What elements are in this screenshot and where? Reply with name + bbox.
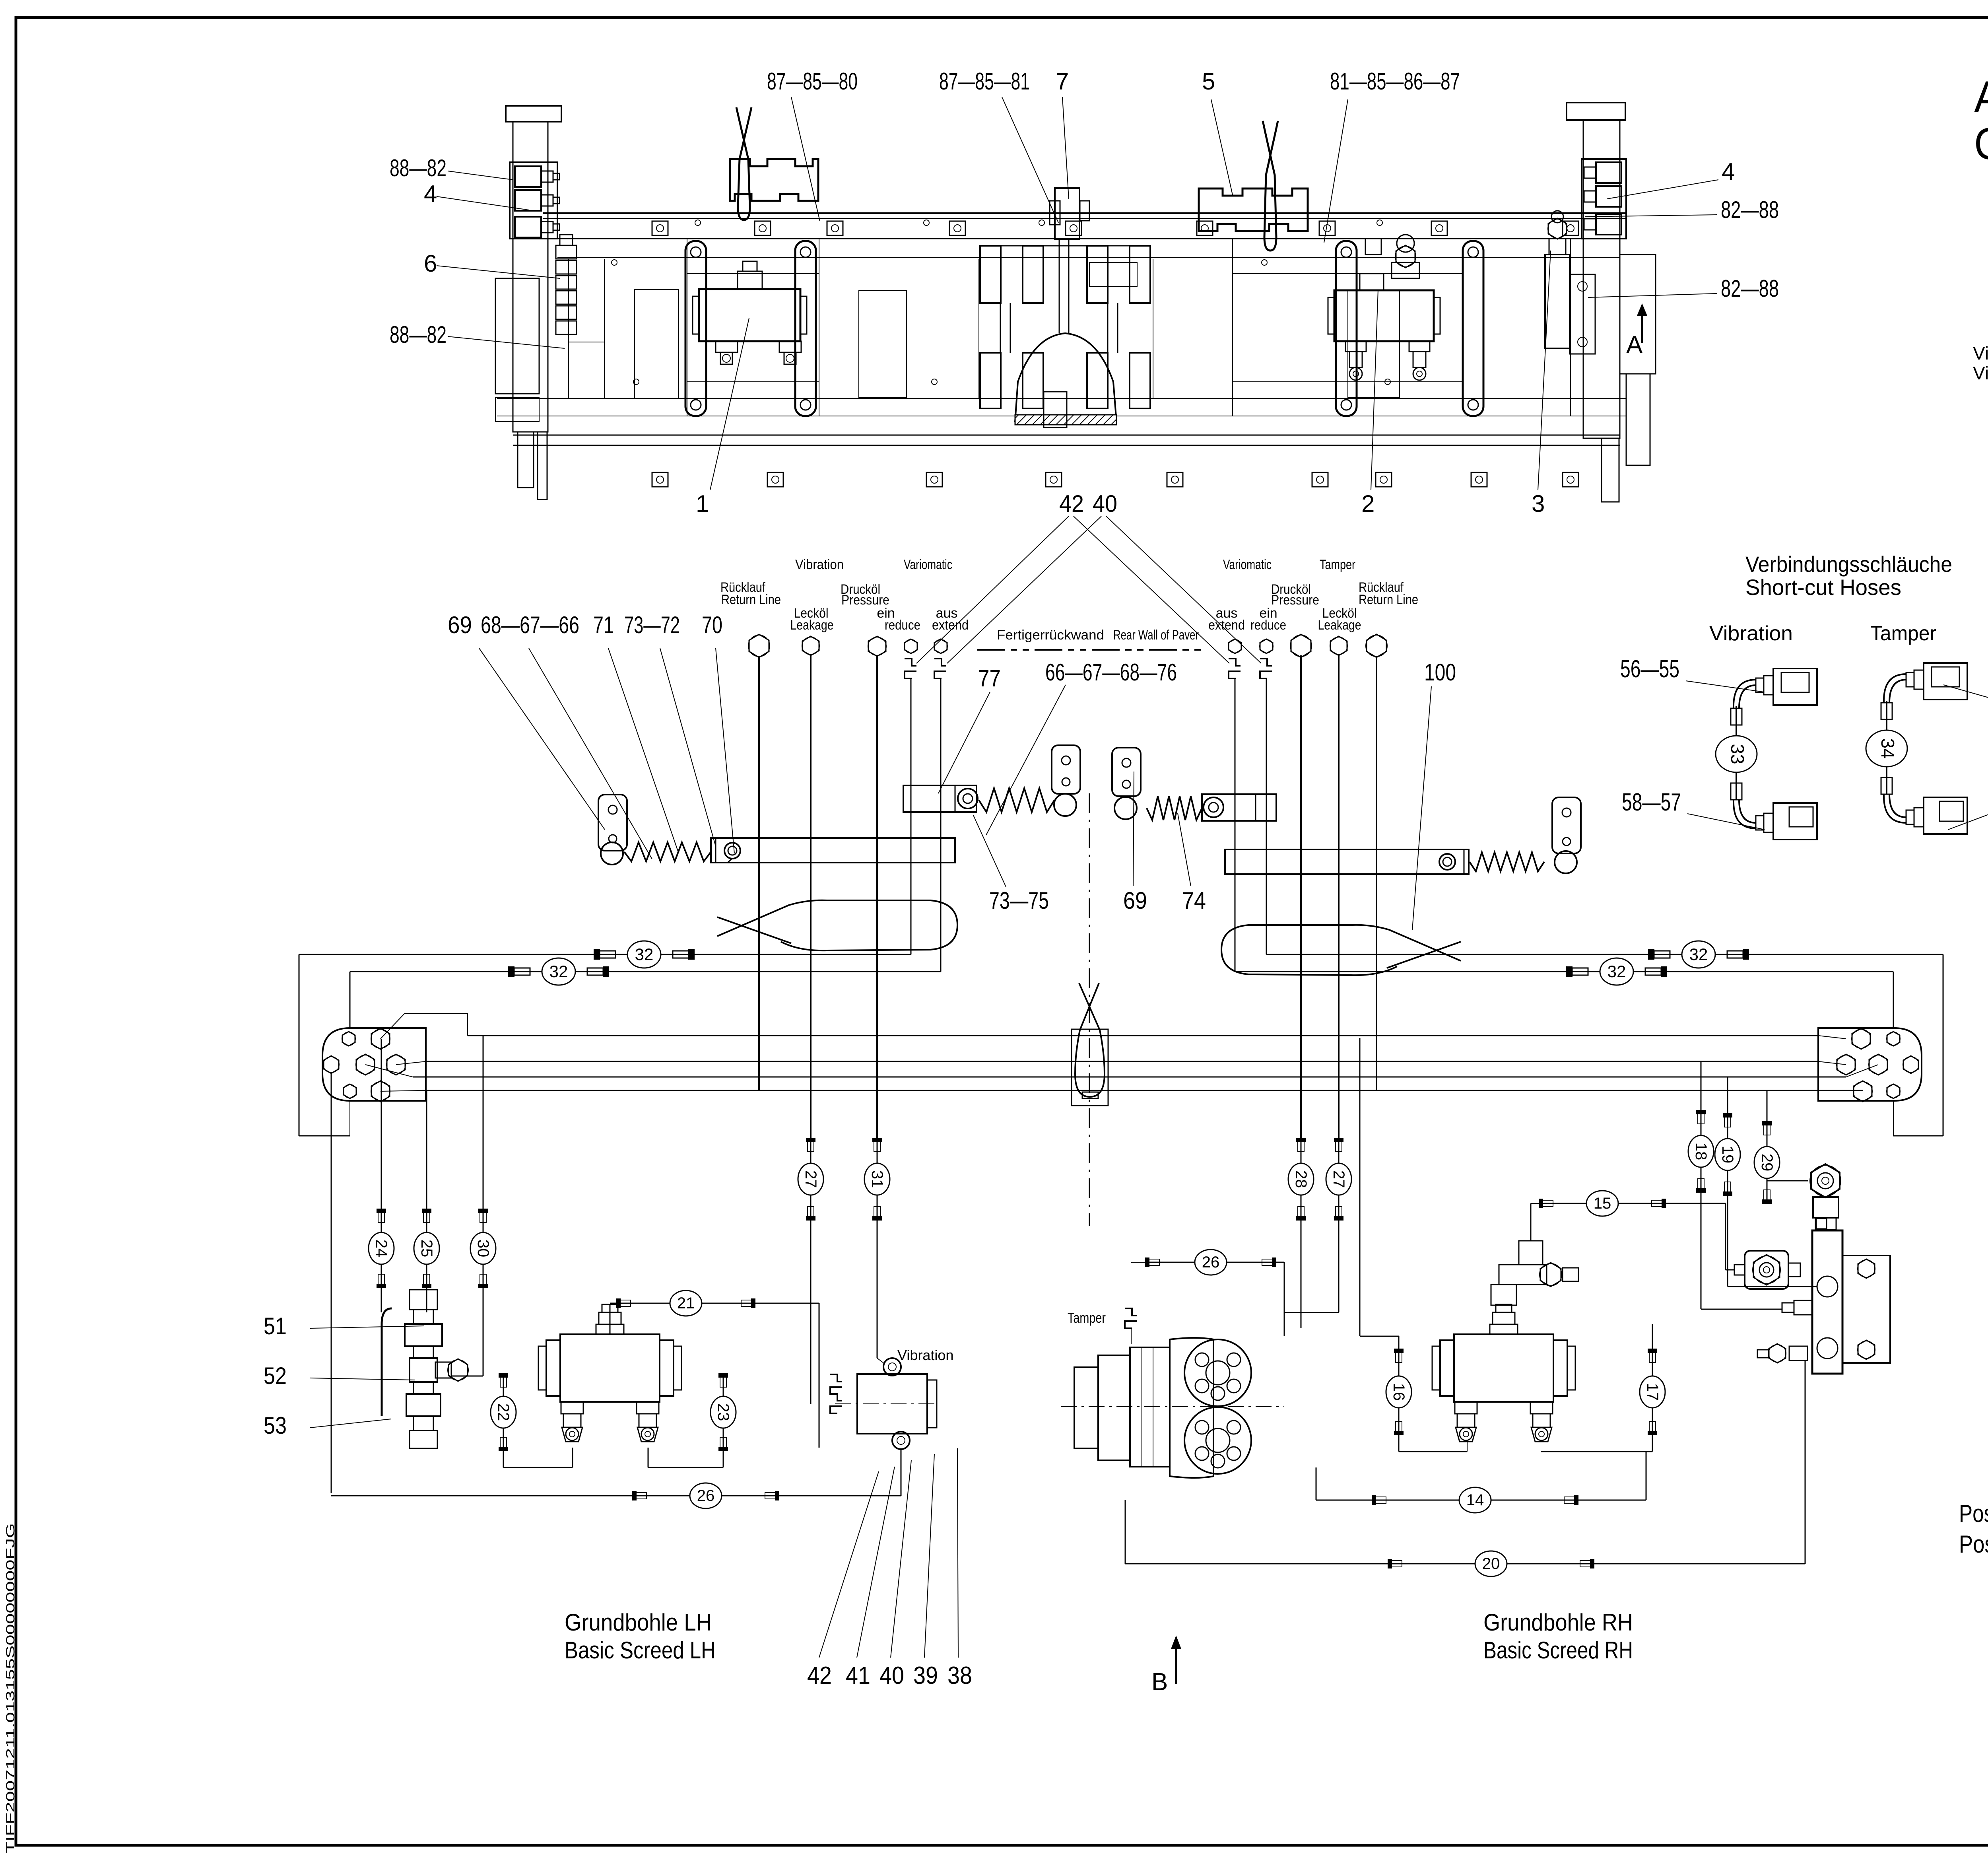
svg-text:42: 42 xyxy=(807,1662,832,1689)
hose 31 xyxy=(877,1141,878,1217)
svg-text:Vibration Pressure Oil: Vibration Pressure Oil xyxy=(1973,363,1988,383)
svg-text:32: 32 xyxy=(1607,962,1626,981)
svg-text:extend: extend xyxy=(1208,618,1245,633)
anchor plate xyxy=(598,795,627,851)
svg-text:81—85—86—87: 81—85—86—87 xyxy=(1330,68,1460,95)
hose 25 xyxy=(426,1212,427,1285)
RH tee fittings xyxy=(1491,1285,1516,1305)
hose 20 xyxy=(1125,1500,1126,1564)
hose 26 xyxy=(1149,1262,1272,1263)
right connector stack 4 / 82-88 xyxy=(1582,159,1626,239)
svg-text:B: B xyxy=(1151,1668,1168,1696)
svg-text:22: 22 xyxy=(495,1403,512,1421)
svg-text:Pressure: Pressure xyxy=(1271,593,1319,608)
svg-text:23: 23 xyxy=(714,1403,732,1421)
svg-text:20: 20 xyxy=(1482,1555,1500,1572)
LH drop from manifold xyxy=(331,1074,332,1493)
hose 24 xyxy=(381,1212,382,1285)
svg-text:27: 27 xyxy=(1330,1170,1347,1188)
svg-text:51: 51 xyxy=(264,1313,287,1339)
hose 16 xyxy=(1398,1352,1400,1432)
hose 14 xyxy=(1316,1467,1317,1500)
clip symbol xyxy=(1125,1308,1137,1316)
svg-text:1: 1 xyxy=(696,490,709,517)
part 6 fitting stack xyxy=(556,245,577,259)
RH clamp bar short xyxy=(1202,794,1276,821)
wire 19 xyxy=(1727,1077,1728,1117)
svg-text:73—72: 73—72 xyxy=(624,612,680,638)
wire 24 xyxy=(381,1039,382,1212)
svg-text:24: 24 xyxy=(373,1240,390,1257)
svg-text:19: 19 xyxy=(1719,1146,1736,1164)
svg-text:28: 28 xyxy=(1292,1170,1310,1188)
hose 21 xyxy=(610,1304,611,1335)
svg-text:21: 21 xyxy=(677,1294,695,1312)
anchor plate xyxy=(1112,748,1141,796)
hose 26 RH xyxy=(1131,1329,1132,1344)
svg-text:3: 3 xyxy=(1532,490,1545,517)
vario cylinder assembly xyxy=(560,1334,660,1402)
subframe lines xyxy=(687,273,819,274)
svg-text:27: 27 xyxy=(802,1170,819,1188)
svg-text:31: 31 xyxy=(868,1170,886,1188)
svg-text:53: 53 xyxy=(264,1412,287,1439)
leader 66-67-68-76 xyxy=(986,685,1066,835)
svg-text:26: 26 xyxy=(1202,1254,1220,1271)
left cable bracket 87-85-80 xyxy=(730,159,818,201)
bottom callout leaders xyxy=(819,1471,879,1658)
svg-text:40: 40 xyxy=(1093,490,1117,517)
svg-text:Tamper: Tamper xyxy=(1870,622,1936,645)
svg-text:Vibration: Vibration xyxy=(897,1347,953,1363)
RH valve side plate xyxy=(1842,1256,1890,1363)
svg-text:Return Line: Return Line xyxy=(721,592,781,607)
bus top pair LH xyxy=(299,954,911,955)
RH clamp bar long xyxy=(1225,849,1469,874)
svg-text:34: 34 xyxy=(1877,738,1898,758)
svg-text:30: 30 xyxy=(474,1240,492,1257)
bus top pair RH xyxy=(1266,954,1943,955)
crank bell housing xyxy=(1015,333,1116,422)
svg-text:87—85—80: 87—85—80 xyxy=(767,68,858,95)
clip symbol xyxy=(905,659,916,666)
svg-text:73—75: 73—75 xyxy=(989,887,1049,914)
svg-text:Vibration: Vibration xyxy=(795,557,844,572)
clip symbol xyxy=(830,1394,842,1401)
svg-text:4: 4 xyxy=(1722,158,1735,185)
svg-text:71: 71 xyxy=(593,612,614,638)
LH callout leaders xyxy=(479,648,605,830)
LH clamp bar short xyxy=(903,785,977,812)
svg-text:70: 70 xyxy=(702,612,722,638)
svg-text:42: 42 xyxy=(1059,490,1084,517)
hose 14 xyxy=(1376,1500,1574,1501)
left cable loop xyxy=(736,107,751,220)
svg-text:52: 52 xyxy=(264,1362,287,1389)
hose 30 xyxy=(483,1212,484,1285)
svg-text:88—82: 88—82 xyxy=(390,321,447,348)
rivet circles xyxy=(612,260,617,265)
svg-text:16: 16 xyxy=(1390,1383,1408,1401)
component 3 valve cylinder xyxy=(1545,255,1570,348)
hose 27 xyxy=(1338,1141,1340,1217)
wire 18 xyxy=(1701,1061,1702,1114)
hose connector top xyxy=(1924,663,1967,700)
svg-text:Vibration Drucköl: Vibration Drucköl xyxy=(1973,343,1988,363)
svg-text:Pos. 35 Hose-Kit: Pos. 35 Hose-Kit xyxy=(1959,1531,1988,1558)
svg-text:100: 100 xyxy=(1424,659,1456,686)
hose 17 xyxy=(1652,1352,1653,1432)
RH hose loop xyxy=(1221,925,1461,975)
center dash-dot line xyxy=(1089,793,1090,1226)
svg-text:14: 14 xyxy=(1466,1491,1484,1509)
svg-text:69: 69 xyxy=(448,612,472,638)
coupling 32 a xyxy=(600,951,615,958)
leaders 42 40 to clips xyxy=(916,516,1069,663)
center loop clip xyxy=(1082,1092,1098,1098)
svg-text:88—82: 88—82 xyxy=(390,155,447,181)
RH spring 1 xyxy=(1147,796,1202,820)
LH port hex nuts xyxy=(749,634,769,657)
svg-text:82—88: 82—88 xyxy=(1721,196,1779,223)
bottom rail xyxy=(497,398,1626,399)
panel division lines xyxy=(568,259,569,398)
hose 15 xyxy=(1530,1203,1532,1241)
svg-text:25: 25 xyxy=(418,1240,435,1257)
svg-text:Basic Screed LH: Basic Screed LH xyxy=(565,1637,716,1664)
part 7 box xyxy=(1055,188,1079,239)
LH vibration motor xyxy=(857,1374,927,1434)
hose connector bottom xyxy=(1889,794,1906,817)
svg-text:66—67—68—76: 66—67—68—76 xyxy=(1045,659,1177,686)
left manifold tails xyxy=(381,1013,405,1039)
svg-text:32: 32 xyxy=(549,962,568,981)
svg-text:Rear Wall of Paver: Rear Wall of Paver xyxy=(1113,628,1199,643)
hose 27 xyxy=(810,1141,812,1217)
RH valve main block xyxy=(1812,1230,1842,1374)
strap plates xyxy=(685,241,706,416)
rail bolts bottom row xyxy=(652,472,668,487)
hose connector top xyxy=(1773,669,1817,705)
svg-text:74: 74 xyxy=(1182,887,1206,914)
wire 25 xyxy=(426,1090,427,1212)
svg-text:Grundbohle RH: Grundbohle RH xyxy=(1483,1609,1633,1636)
component 1 vario valve LH xyxy=(699,289,800,341)
hose connector bottom xyxy=(1739,800,1756,823)
svg-text:29: 29 xyxy=(1758,1154,1776,1172)
hose 15 xyxy=(1543,1203,1662,1204)
svg-text:Leakage: Leakage xyxy=(1318,618,1361,633)
svg-text:18: 18 xyxy=(1692,1143,1710,1160)
svg-text:39: 39 xyxy=(913,1662,938,1689)
svg-text:5: 5 xyxy=(1202,68,1215,95)
right manifold enclosure xyxy=(1893,972,1894,1028)
RH tamper motor xyxy=(1074,1367,1098,1448)
svg-text:15: 15 xyxy=(1594,1195,1611,1212)
svg-text:extend: extend xyxy=(932,618,969,633)
center hanging loop xyxy=(1075,983,1105,1097)
coupling 32 b xyxy=(514,968,530,975)
svg-text:82—88: 82—88 xyxy=(1721,275,1779,302)
bell housing hatch base xyxy=(1015,415,1116,425)
rail bolts top row xyxy=(652,221,668,235)
hose 23 xyxy=(723,1377,724,1448)
RH valve banjo fitting xyxy=(1811,1164,1840,1197)
svg-text:40: 40 xyxy=(879,1662,904,1689)
svg-text:Fertigerrückwand: Fertigerrückwand xyxy=(997,628,1104,643)
clip symbol xyxy=(934,659,946,666)
RH port hex nuts xyxy=(1229,639,1241,653)
svg-text:Short-cut Hoses: Short-cut Hoses xyxy=(1745,575,1901,600)
RH spring 2 xyxy=(1470,852,1544,871)
svg-text:Pos. 35 Schlauchkit: Pos. 35 Schlauchkit xyxy=(1959,1500,1988,1528)
svg-text:reduce: reduce xyxy=(1250,618,1286,633)
valve stack 51 52 53 xyxy=(410,1290,437,1310)
svg-text:Basic Screed RH: Basic Screed RH xyxy=(1483,1637,1633,1664)
svg-text:41: 41 xyxy=(846,1662,870,1689)
hose 19 xyxy=(1727,1117,1728,1192)
hose 21 xyxy=(620,1303,751,1304)
rear wall dash line xyxy=(977,649,1201,651)
tamper crank discs xyxy=(980,246,1001,303)
section arrow B bottom xyxy=(1175,1642,1177,1684)
wire 29 xyxy=(1767,1090,1768,1125)
left manifold block xyxy=(322,1028,426,1101)
right cable bracket 5 xyxy=(1199,189,1308,231)
svg-text:6: 6 xyxy=(424,250,437,277)
hose 26 LH xyxy=(331,1493,332,1496)
svg-text:4: 4 xyxy=(424,181,437,207)
svg-text:Anschlüsse der Grundbohle: Anschlüsse der Grundbohle xyxy=(1974,72,1988,122)
svg-text:56—55: 56—55 xyxy=(1620,655,1679,683)
svg-text:38: 38 xyxy=(947,1662,972,1689)
LH clamp bar long xyxy=(711,838,955,863)
LH hose loop xyxy=(717,900,957,950)
svg-text:2: 2 xyxy=(1361,490,1375,517)
coupling 32 c xyxy=(1654,951,1670,958)
svg-text:7: 7 xyxy=(1056,68,1069,95)
left connector stack 88-82 / 4 xyxy=(510,162,557,239)
LH port drop lines xyxy=(758,656,760,1090)
svg-text:Verbindungsschläuche: Verbindungsschläuche xyxy=(1745,552,1952,577)
svg-text:32: 32 xyxy=(1689,945,1708,964)
svg-text:Variomatic: Variomatic xyxy=(1223,557,1272,572)
wire 30 xyxy=(483,1036,484,1212)
LH spring 1 xyxy=(624,842,711,861)
section arrow A xyxy=(1641,309,1643,343)
main bus lines xyxy=(468,1035,1818,1036)
hose 18 xyxy=(1701,1114,1702,1189)
hose 26 xyxy=(636,1495,775,1497)
svg-text:Leakage: Leakage xyxy=(790,618,834,633)
clip symbol xyxy=(830,1374,842,1382)
screed left end column xyxy=(506,106,561,122)
left manifold enclosure xyxy=(349,972,351,1028)
RH block left fitting xyxy=(1794,1300,1812,1315)
hose 28 xyxy=(1301,1141,1302,1217)
svg-text:TIFF20071211.013155S00000000FJ: TIFF20071211.013155S00000000FJG xyxy=(4,1523,17,1853)
svg-text:Variomatic: Variomatic xyxy=(904,557,952,572)
svg-text:17: 17 xyxy=(1644,1383,1661,1401)
svg-text:26: 26 xyxy=(697,1487,715,1504)
anchor plate xyxy=(1552,797,1581,853)
screed right end column xyxy=(1567,103,1625,120)
svg-text:Vibration: Vibration xyxy=(1709,622,1793,645)
LH spring 2 xyxy=(979,788,1054,812)
svg-text:Connectors on Basic Screed: Connectors on Basic Screed xyxy=(1974,119,1988,169)
svg-text:Grundbohle LH: Grundbohle LH xyxy=(565,1609,712,1636)
svg-text:69: 69 xyxy=(1123,887,1147,914)
svg-text:Return Line: Return Line xyxy=(1359,592,1418,607)
vario cylinder assembly xyxy=(1454,1334,1553,1402)
hose 29 xyxy=(1767,1125,1768,1200)
hose 22 xyxy=(503,1377,504,1448)
hose 20 xyxy=(1392,1563,1590,1565)
RH port drop lines xyxy=(1235,678,1236,972)
svg-text:58—57: 58—57 xyxy=(1622,789,1681,816)
clip symbol xyxy=(1260,659,1272,666)
valve stack handle xyxy=(382,1308,392,1416)
svg-text:reduce: reduce xyxy=(885,618,920,633)
svg-text:77: 77 xyxy=(978,665,1001,692)
right manifold tails xyxy=(1818,1036,1846,1039)
center clamp plate xyxy=(1072,1029,1108,1106)
RH solenoid valve xyxy=(1745,1251,1788,1289)
svg-text:87—85—81: 87—85—81 xyxy=(939,68,1030,95)
clip symbol xyxy=(1229,659,1241,666)
anchor plate xyxy=(1052,745,1080,794)
svg-text:Tamper: Tamper xyxy=(1320,557,1355,572)
right manifold block xyxy=(1818,1028,1922,1101)
coupling 32 d xyxy=(1572,968,1588,975)
top rail xyxy=(543,212,1626,214)
svg-text:Tamper: Tamper xyxy=(1068,1310,1106,1326)
svg-text:32: 32 xyxy=(635,945,654,964)
right cable loop xyxy=(1263,121,1278,251)
RH block bottom fitting xyxy=(1789,1346,1807,1361)
svg-text:68—67—66: 68—67—66 xyxy=(481,612,579,638)
component 2 tamper valve assembly RH xyxy=(1334,290,1434,341)
svg-text:A: A xyxy=(1626,331,1643,359)
svg-text:33: 33 xyxy=(1727,744,1748,764)
